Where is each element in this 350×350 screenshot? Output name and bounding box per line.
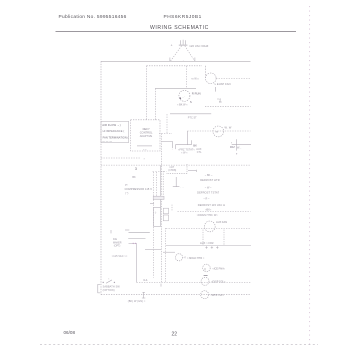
svg-text:L EVAP FAN: L EVAP FAN xyxy=(215,82,231,86)
svg-text:120 VAC 60HZ: 120 VAC 60HZ xyxy=(189,44,208,48)
svg-text:PHS6KR5J0B1: PHS6KR5J0B1 xyxy=(164,14,202,20)
stub wire right of junction xyxy=(188,170,196,172)
svg-text:(1TD8): (1TD8) xyxy=(168,169,176,172)
sabbath bracket xyxy=(98,284,100,293)
wire fan leg right xyxy=(223,230,225,246)
svg-text:~ R ~: ~ R ~ xyxy=(203,197,210,200)
wire cord to N drop xyxy=(185,46,195,61)
wire auxiliary feed line xyxy=(166,244,251,246)
air flow legend box xyxy=(101,121,129,142)
wire compressor branch drop xyxy=(154,88,156,119)
ground lead wire xyxy=(175,177,177,187)
svg-text:3: 3 xyxy=(135,167,137,171)
svg-text:W. W: W. W xyxy=(225,126,232,130)
svg-text:HI IMPEDANCE (: HI IMPEDANCE ( xyxy=(103,129,125,133)
svg-text:DEFY: DEFY xyxy=(143,127,150,131)
compressor terminal S xyxy=(180,97,182,99)
defrost relay contact line xyxy=(137,145,152,147)
node N xyxy=(194,58,196,62)
header rule xyxy=(56,31,297,33)
svg-text:PTC ST: PTC ST xyxy=(188,117,197,120)
wire main neutral bus xyxy=(101,164,251,166)
ice maker connector wire 1 xyxy=(129,232,150,234)
switch contact box upper xyxy=(163,208,168,214)
wire drop to evap fan motor xyxy=(205,66,207,78)
ice maker connector wire 3 xyxy=(129,244,137,283)
svg-text:. . .: . . . xyxy=(180,186,184,189)
wire lamp feed xyxy=(101,157,140,159)
svg-text:R RUN: R RUN xyxy=(192,92,201,96)
wire drop control feed xyxy=(146,66,148,120)
svg-text:≈ MOLD HTR ≈: ≈ MOLD HTR ≈ xyxy=(187,257,205,260)
defrost control box xyxy=(131,120,161,151)
auger motor terminal bar xyxy=(204,275,208,277)
svg-text:p≈: p≈ xyxy=(125,184,128,187)
adaptive defrost sensor circle xyxy=(213,126,224,137)
wire light switch col 2 xyxy=(156,172,158,196)
svg-text:≈DRAIN HTR≈ W≈: ≈DRAIN HTR≈ W≈ xyxy=(197,214,218,217)
svg-text:(′ ′): (′ ′) xyxy=(125,192,128,195)
connector hatch row xyxy=(153,196,164,199)
sabbath switch dot left xyxy=(103,282,104,283)
terminal tick below evap fan xyxy=(214,87,216,92)
power cord plug prong G xyxy=(185,40,187,44)
sabbath switch marks xyxy=(106,280,112,283)
svg-text:CONTROL: CONTROL xyxy=(140,131,153,135)
wire defrost return line xyxy=(178,211,251,213)
svg-text:(BK) W (GN) ≈: (BK) W (GN) ≈ xyxy=(128,300,146,303)
evap fan motor M1 xyxy=(206,73,217,84)
svg-text:..·: ..· xyxy=(182,95,186,99)
thermostat bracket left leg xyxy=(175,145,177,149)
svg-text:dc: dc xyxy=(219,100,222,104)
wire drop 2 to thermostat bracket xyxy=(190,140,192,145)
svg-text:≈ BK W ≈: ≈ BK W ≈ xyxy=(177,104,188,107)
page fold dotted horizontal xyxy=(40,344,318,346)
page fold dotted vertical xyxy=(309,6,311,345)
svg-text:AIR FLOW →): AIR FLOW →) xyxy=(102,123,120,127)
thermostat bracket bar xyxy=(175,144,191,146)
svg-text:≈: ≈ xyxy=(108,278,110,281)
wire fan leg left xyxy=(202,230,204,246)
wire condenser fan stub xyxy=(232,143,251,145)
svg-text:≈115 VAC ≈≈: ≈115 VAC ≈≈ xyxy=(112,255,128,258)
auger motor M5 xyxy=(203,264,211,272)
wire relay drop xyxy=(166,114,168,133)
terminal tick 2 below feed xyxy=(211,246,213,249)
junction ticks row xyxy=(153,171,167,173)
tick below dispenser line xyxy=(160,284,162,287)
stub terminal tick xyxy=(195,170,197,172)
svg-text:(OPTION): (OPTION) xyxy=(103,289,115,292)
water valve M7 xyxy=(201,291,209,299)
wire junction drop xyxy=(166,164,187,173)
sabbath switch dot right xyxy=(114,282,115,283)
svg-text:. . . .: . . . . xyxy=(213,108,240,111)
light switch body xyxy=(154,208,161,227)
terminal dot 2 on wire 3 xyxy=(135,243,136,244)
svg-text:CTL: CTL xyxy=(197,151,202,154)
svg-text:DEFROST TSTAT: DEFROST TSTAT xyxy=(197,190,219,194)
power cord plug prong N xyxy=(182,40,184,45)
svg-text:S: S xyxy=(190,100,192,104)
condenser fan drop wire xyxy=(236,139,238,150)
ice maker motor M4 xyxy=(175,254,182,261)
svg-text:..: .. xyxy=(172,148,174,151)
svg-text:+: + xyxy=(171,44,173,48)
wire cord to L1 rail xyxy=(171,46,182,61)
dispenser solenoid M6 xyxy=(201,277,209,285)
wire door switch col 5 xyxy=(165,228,167,282)
svg-text:≈x W x: ≈x W x xyxy=(191,78,199,81)
svg-text:·|·: ·|· xyxy=(155,211,157,214)
wire light switch col 3 xyxy=(159,165,161,207)
wire rail B to evap fan xyxy=(147,65,203,67)
wire dispenser line xyxy=(137,281,252,283)
svg-text:(OPT): (OPT) xyxy=(114,245,121,248)
wire neutral bottom rail xyxy=(101,294,251,296)
svg-text:r: r xyxy=(231,141,232,144)
wire outer cabinet left harness xyxy=(100,61,102,294)
wire start relay line xyxy=(170,113,211,115)
svg-text:||: || xyxy=(204,267,206,271)
polarity symbol on neutral xyxy=(142,292,145,298)
switch contact box lower xyxy=(163,215,168,221)
svg-text:FAN TERMINATION (: FAN TERMINATION ( xyxy=(103,135,129,139)
svg-text:SABBATH SW: SABBATH SW xyxy=(103,286,121,289)
wire freezer fan line xyxy=(166,228,251,230)
svg-text:..: .. xyxy=(183,59,185,62)
stub left small xyxy=(110,230,112,233)
svg-text:≈ W ≈: ≈ W ≈ xyxy=(181,152,188,155)
ground bar xyxy=(173,186,180,188)
node L1 xyxy=(169,58,171,62)
svg-text:≈ICE FAN≈: ≈ICE FAN≈ xyxy=(212,267,225,270)
wire stub lamp xyxy=(145,249,161,251)
svg-text:~ W ~: ~ W ~ xyxy=(205,186,212,189)
svg-text:≈ ≈: ≈ ≈ xyxy=(143,148,147,151)
wire L1 supply rail xyxy=(101,60,251,62)
stub tick left xyxy=(150,203,154,205)
wire run capacitor line xyxy=(205,105,251,107)
terminal tick 3 below feed xyxy=(216,246,218,249)
wire light switch col 1 xyxy=(153,172,155,278)
wire compressor feed drop xyxy=(186,66,188,89)
freezer fan motor M3 xyxy=(204,221,215,232)
svg-text:— — —: — — — xyxy=(102,140,112,143)
svg-text:r: r xyxy=(144,157,145,160)
wire door switch bus xyxy=(161,133,163,282)
wire drop to thermostat bracket xyxy=(187,131,189,145)
ice maker connector wire 2 xyxy=(128,237,145,239)
svg-text:C-1: C-1 xyxy=(143,278,148,282)
svg-text:≈WTR VLV≈: ≈WTR VLV≈ xyxy=(210,294,224,297)
svg-text:22: 22 xyxy=(172,332,178,338)
svg-text:AUX FAN: AUX FAN xyxy=(216,220,227,224)
wire defrost control to adc xyxy=(159,133,172,135)
wire adc bottom rail xyxy=(187,130,250,132)
svg-text:Publication No. 5995516456: Publication No. 5995516456 xyxy=(59,14,127,20)
terminal tick 1 below feed xyxy=(205,246,207,249)
svg-text:W...: W... xyxy=(237,147,242,150)
svg-text:~ BK ~: ~ BK ~ xyxy=(205,174,213,177)
svg-text:≈DISP SOL≈: ≈DISP SOL≈ xyxy=(211,281,226,284)
wire light switch col 4 xyxy=(162,171,164,196)
svg-text:DEFROST HTR: DEFROST HTR xyxy=(200,178,220,182)
wire stub lamp right xyxy=(163,251,175,253)
terminal dots on wire 3 xyxy=(133,243,134,244)
svg-text:+): +) xyxy=(183,256,185,259)
wire step to cluster xyxy=(162,142,173,149)
stub above ice maker xyxy=(125,229,129,231)
wire evap fan to right xyxy=(216,77,250,79)
wire compressor branch horizontal xyxy=(155,87,196,89)
svg-text:T?: T? xyxy=(215,130,219,134)
svg-text:ADAPTIVE: ADAPTIVE xyxy=(140,135,153,138)
compressor motor M2 xyxy=(179,90,190,101)
dot below condenser stub xyxy=(236,153,237,154)
svg-text:AUX ≈ FRZ: AUX ≈ FRZ xyxy=(200,242,214,245)
svg-text:06/08: 06/08 xyxy=(64,330,76,335)
svg-text:BK: BK xyxy=(132,176,136,179)
svg-text:FRZ: FRZ xyxy=(230,146,235,149)
svg-text:BK: BK xyxy=(193,144,197,148)
svg-text:WIRING SCHEMATIC: WIRING SCHEMATIC xyxy=(150,25,209,31)
stub above drain line xyxy=(171,205,173,212)
svg-text:DEFROST 115 VAC H: DEFROST 115 VAC H xyxy=(198,203,225,207)
svg-text:COMPRESSOR 115 V: COMPRESSOR 115 V xyxy=(125,188,153,191)
power cord plug body xyxy=(179,44,188,46)
power cord plug prong L1 xyxy=(180,40,182,44)
